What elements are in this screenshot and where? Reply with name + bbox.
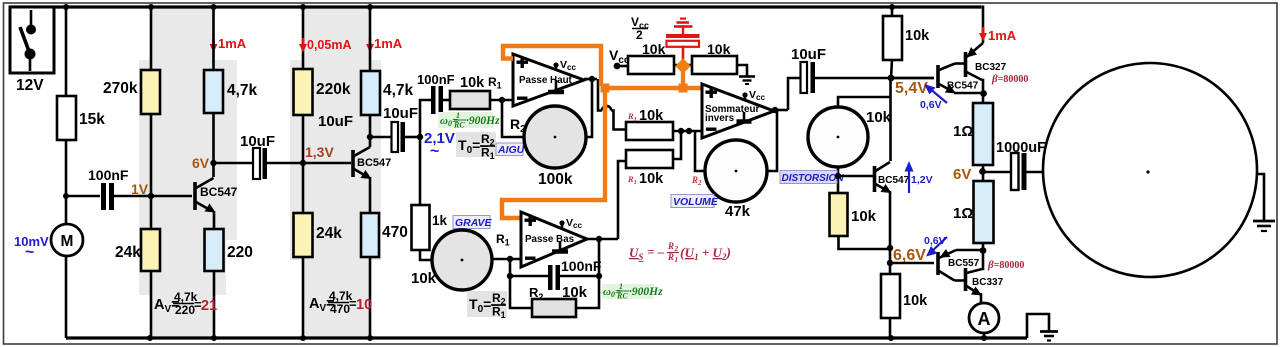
svg-text:10k: 10k: [460, 75, 485, 91]
wire branch to DISTORSION pot top: [838, 97, 891, 107]
svg-text:24k: 24k: [316, 225, 342, 242]
potentiometer GRAVE 10k: [432, 230, 492, 290]
op-amp U2 Passe Bas: [521, 212, 587, 267]
wire R2 feedback drop: [502, 100, 523, 137]
svg-text:6,6V: 6,6V: [893, 247, 926, 264]
svg-text:RC: RC: [453, 121, 465, 130]
svg-text:6V: 6V: [192, 155, 210, 171]
svg-text:220k: 220k: [316, 81, 351, 98]
svg-text:BC547: BC547: [357, 157, 391, 169]
node 5,4V: [888, 75, 895, 82]
potentiometer VOLUME 47k: [705, 140, 767, 202]
resistor 470 emitter: [369, 177, 372, 213]
emitter wire down to 6,6V node: [889, 191, 892, 274]
wire output down to pot right: [766, 111, 777, 171]
svg-text:2: 2: [674, 245, 679, 253]
svg-text:21: 21: [201, 298, 217, 314]
svg-text:10k: 10k: [851, 208, 877, 225]
svg-text:1: 1: [675, 256, 679, 264]
microphone M: [51, 224, 83, 256]
transistor Q1 BC547: [195, 178, 238, 213]
svg-text:VOLUME: VOLUME: [673, 196, 719, 208]
svg-text:Passe Haut: Passe Haut: [519, 75, 573, 86]
label Vcc divider: [609, 47, 630, 69]
output node of Passe Haut: [584, 78, 597, 81]
resistor R1 10k summer input 1: [626, 122, 673, 140]
node 6V output: [979, 168, 986, 175]
resistor 1 ohm bottom: [974, 181, 994, 243]
wire minus node down: [510, 259, 532, 308]
resistor 1k: [412, 205, 430, 250]
potentiometer DISTORSION 10k: [808, 107, 868, 167]
svg-text:10uF: 10uF: [318, 113, 353, 130]
capacitor 10uF interstage: [214, 133, 352, 179]
ammeter A: [969, 303, 999, 333]
label AIGU: [496, 143, 525, 156]
transistor BC547 driver: [938, 64, 984, 94]
svg-text:2: 2: [636, 28, 643, 42]
wire 5,4V to driver base: [891, 77, 934, 80]
svg-text:1Ω: 1Ω: [953, 123, 973, 140]
wire 2,1V up to high-pass input: [420, 100, 431, 137]
svg-text:1000uF: 1000uF: [996, 140, 1046, 156]
svg-text:RC: RC: [616, 292, 628, 301]
svg-text:GRAVE: GRAVE: [455, 217, 493, 229]
svg-text:R2: R2: [691, 175, 702, 187]
svg-text:10k: 10k: [866, 109, 892, 126]
wire BC337 emitter to ammeter: [980, 293, 983, 303]
svg-text:1Ω: 1Ω: [953, 205, 973, 222]
current arrow 1mA: [210, 36, 247, 53]
wire 5,4V node down / collector branch: [889, 78, 892, 161]
svg-text:BC327: BC327: [975, 62, 1007, 73]
capacitor 1000uF: [983, 140, 1047, 190]
wire output up to summer resistor R1 bottom: [618, 161, 626, 239]
svg-text:470: 470: [382, 224, 408, 241]
formula omega0 low-pass: [602, 282, 663, 301]
svg-text:DISTORSION: DISTORSION: [782, 173, 845, 184]
stage 2 shaded region: [290, 9, 381, 338]
wire GRAVE pot to low-pass minus input: [492, 258, 521, 261]
svg-text:10k: 10k: [639, 171, 664, 187]
label GRAVE: [453, 216, 493, 230]
wire pot right to output: [586, 79, 592, 137]
ground speaker: [1253, 174, 1275, 231]
svg-text:47k: 47k: [725, 203, 751, 220]
svg-text:R2: R2: [529, 285, 543, 302]
svg-text:100nF: 100nF: [561, 258, 602, 274]
orange bias net Vcc/2: [502, 46, 702, 218]
resistor R2 10k low-pass feedback: [532, 299, 576, 317]
low-pass output node: [587, 238, 618, 241]
transistor BC327: [966, 43, 1007, 94]
capacitor 100nF high-pass: [417, 72, 455, 114]
wire 15k to M: [65, 140, 68, 224]
ground divider right: [737, 65, 755, 84]
resistor 24k: [150, 196, 153, 229]
svg-text:β=80000: β=80000: [987, 259, 1024, 271]
summer output node: [774, 109, 788, 112]
svg-text:1mA: 1mA: [218, 36, 247, 51]
svg-text:US: US: [629, 245, 643, 262]
capacitor 10uF summer output: [791, 46, 934, 93]
svg-text:1V: 1V: [131, 181, 149, 197]
feedback vertical low-pass: [576, 239, 599, 308]
wire M to ground rail: [65, 256, 68, 338]
orange diamond node Vcc/2: [675, 58, 691, 74]
svg-text:1: 1: [456, 111, 460, 120]
svg-text:1mA: 1mA: [374, 36, 403, 51]
svg-text:1,3V: 1,3V: [305, 144, 334, 160]
svg-text:= –: = –: [647, 244, 665, 259]
svg-text:A: A: [978, 309, 991, 329]
formula Av stage 2: [309, 289, 372, 316]
svg-text:15k: 15k: [79, 111, 105, 128]
current arrow 1mA second: [366, 36, 403, 53]
svg-text:10uF: 10uF: [791, 46, 826, 63]
svg-text:R: R: [667, 252, 674, 262]
svg-text:AIGU: AIGU: [497, 144, 525, 156]
wire 6,6V to BC557 base: [890, 262, 934, 265]
svg-text:0,6V: 0,6V: [920, 99, 942, 111]
svg-text:100nF: 100nF: [88, 167, 129, 183]
label DISTORSION: [780, 171, 844, 185]
voltage arrow 1,2V: [905, 161, 933, 193]
svg-text:·900Hz: ·900Hz: [629, 286, 663, 298]
ground near ammeter: [1027, 314, 1058, 341]
resistor 1 ohm top: [982, 93, 985, 103]
op-amp U3 Sommateur invers: [702, 84, 774, 138]
svg-text:2,1V: 2,1V: [424, 130, 455, 147]
resistor 10k collector load: [891, 7, 894, 16]
svg-text:1,2V: 1,2V: [911, 174, 933, 186]
resistor 4,7k second: [369, 7, 372, 71]
wire pot bottom to base node: [837, 167, 840, 193]
transistor Q2 BC547: [353, 137, 391, 179]
current arrow 1mA output: [979, 6, 1017, 44]
svg-text:12V: 12V: [16, 77, 44, 94]
svg-text:10k: 10k: [905, 28, 930, 44]
resistor 220k: [302, 7, 305, 69]
battery switch 12V: [10, 7, 54, 94]
capacitor 10uF second stage output: [370, 105, 420, 152]
svg-text:1k: 1k: [432, 213, 448, 228]
transistor BC337: [966, 251, 1004, 296]
transistor BC557: [938, 249, 983, 281]
svg-text:invers: invers: [705, 113, 735, 124]
resistor 10k base-emitter (yellow): [830, 193, 848, 236]
svg-text:Passe Bas: Passe Bas: [525, 234, 575, 245]
svg-text:10k: 10k: [411, 270, 437, 287]
svg-text:100k: 100k: [538, 171, 573, 188]
svg-text:10k: 10k: [707, 41, 731, 57]
svg-text:BC547: BC547: [878, 175, 910, 186]
svg-text:10uF: 10uF: [240, 133, 275, 150]
resistor 4,7k first stage: [212, 7, 215, 70]
label VOLUME: [671, 195, 719, 209]
svg-text:BC337: BC337: [972, 277, 1004, 288]
svg-text:BC547: BC547: [200, 185, 238, 199]
node 2,1V: [417, 134, 423, 140]
node BC557 emitter / BC337 collector: [980, 247, 987, 254]
svg-text:1: 1: [619, 282, 623, 291]
svg-text:BC557: BC557: [948, 258, 980, 269]
svg-text:6V: 6V: [953, 166, 971, 183]
svg-text:1mA: 1mA: [988, 28, 1017, 43]
resistor 220 emitter: [213, 211, 216, 229]
svg-text:Vcc: Vcc: [566, 217, 582, 230]
op-amp U1 Passe Haut: [513, 54, 584, 106]
wire 2,1V down to 1k: [419, 137, 422, 204]
formula omega0 high-pass: [438, 111, 500, 130]
formula T0 low-pass: [467, 291, 507, 320]
voltage arrow 0,6V bottom: [924, 235, 947, 257]
svg-text:470: 470: [330, 302, 350, 316]
capacitor 100nF input: [66, 167, 192, 210]
svg-text:10k: 10k: [639, 108, 664, 124]
resistor 15k: [57, 96, 76, 140]
potentiometer AIGU 100k: [524, 106, 586, 168]
voltage arrow 0,6V top: [920, 84, 947, 111]
svg-text:R: R: [667, 241, 674, 251]
svg-text:·900Hz: ·900Hz: [466, 115, 500, 127]
svg-text:R1: R1: [488, 75, 502, 91]
svg-text:4,7k: 4,7k: [383, 82, 414, 99]
resistor 10k emitter to ground: [881, 274, 900, 318]
svg-text:~: ~: [430, 143, 439, 160]
svg-text:(U1 + U2): (U1 + U2): [680, 245, 731, 262]
wire 1k to GRAVE pot: [420, 250, 432, 260]
svg-text:0,6V: 0,6V: [924, 235, 946, 247]
resistor 10k divider right: [692, 56, 737, 74]
svg-text:10k: 10k: [562, 284, 588, 301]
wire rail to 15k: [65, 7, 68, 96]
wire output up to 10uF: [788, 78, 800, 110]
resistor 10k divider left: [628, 56, 674, 74]
capacitor 100nF low-pass feedback: [510, 258, 602, 290]
speaker: [1043, 63, 1257, 277]
svg-text:~: ~: [25, 244, 34, 261]
stage 1 shaded region: [139, 9, 237, 338]
svg-text:M: M: [61, 233, 74, 250]
svg-text:Vcc: Vcc: [749, 89, 765, 102]
wire summer minus to VOLUME pot: [695, 131, 705, 171]
svg-text:10uF: 10uF: [383, 105, 418, 122]
current arrow 0,05mA: [299, 38, 351, 53]
svg-text:10k: 10k: [903, 293, 928, 309]
svg-text:β=80000: β=80000: [991, 73, 1028, 85]
svg-text:R1: R1: [496, 232, 510, 248]
node driver emitter / BC327 collector: [980, 90, 987, 97]
wire output to summer resistor R1 top with hop: [598, 79, 602, 111]
formula T0 high-pass: [456, 132, 496, 161]
svg-text:220: 220: [175, 303, 195, 317]
svg-text:0,05mA: 0,05mA: [307, 38, 351, 52]
svg-text:10k: 10k: [642, 41, 666, 57]
svg-text:4,7k: 4,7k: [227, 82, 258, 99]
formula Av stage 1: [154, 290, 217, 317]
svg-text:270k: 270k: [103, 80, 138, 97]
svg-text:10: 10: [356, 297, 372, 313]
svg-text:Vcc: Vcc: [560, 59, 576, 72]
label Vcc/2: [631, 15, 649, 42]
resistor R1 10k high-pass: [450, 91, 490, 109]
resistor 24k second: [302, 163, 305, 213]
transistor Q3 BC547 distorsion: [838, 162, 910, 193]
svg-text:24k: 24k: [115, 244, 141, 261]
bottom ground rail: [66, 336, 1027, 339]
svg-text:BC547: BC547: [947, 81, 979, 92]
top supply rail: [10, 5, 982, 8]
svg-text:5,4V: 5,4V: [895, 80, 928, 97]
capacitor Vcc/2 red: [666, 18, 700, 65]
svg-text:220: 220: [227, 244, 253, 261]
resistor 270k: [150, 7, 153, 70]
svg-text:R1: R1: [627, 174, 637, 186]
formula Us summing: [629, 241, 731, 264]
svg-text:100nF: 100nF: [417, 72, 455, 87]
resistor R1 10k summer input 2: [626, 150, 673, 168]
